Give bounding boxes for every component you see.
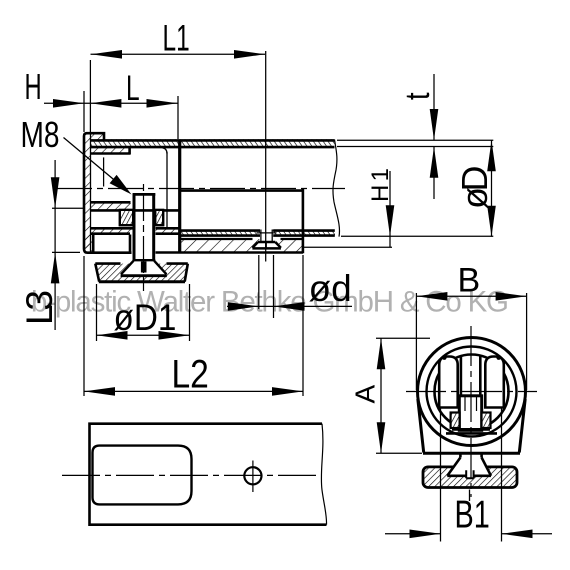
- svg-text:L: L: [126, 70, 140, 108]
- svg-text:ød: ød: [309, 268, 352, 309]
- svg-text:L2: L2: [172, 352, 209, 396]
- svg-text:øD1: øD1: [114, 297, 177, 338]
- svg-text:t: t: [398, 92, 437, 100]
- svg-text:øD: øD: [454, 166, 495, 210]
- svg-text:A: A: [350, 385, 381, 404]
- svg-text:H1: H1: [367, 168, 394, 202]
- svg-text:H: H: [25, 67, 42, 107]
- svg-text:M8: M8: [21, 115, 60, 155]
- svg-text:B1: B1: [455, 493, 490, 536]
- svg-text:B: B: [458, 262, 481, 300]
- svg-text:L1: L1: [163, 17, 190, 58]
- svg-text:L3: L3: [19, 290, 60, 325]
- svg-text:b-plastic Walter Bethke GmbH &: b-plastic Walter Bethke GmbH & Co KG: [31, 286, 509, 319]
